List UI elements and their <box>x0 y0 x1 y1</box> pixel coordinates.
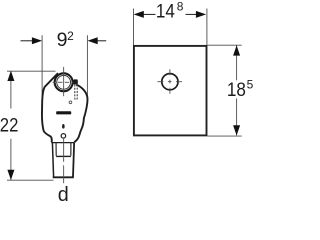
clip head <box>73 79 78 84</box>
svg-text:18: 18 <box>227 80 246 101</box>
trap centerline lower segment <box>63 165 65 183</box>
dimension 22 top extension line <box>7 70 56 72</box>
tube bottom edge <box>53 176 74 178</box>
svg-text:9: 9 <box>57 29 68 51</box>
dimension 22 bottom extension line <box>7 179 54 181</box>
tube right wall <box>73 143 74 177</box>
dimension 18-5 bottom extension line <box>208 135 242 137</box>
svg-text:22: 22 <box>0 116 18 137</box>
dimension 18-5 top extension line <box>208 44 242 46</box>
svg-text:14: 14 <box>156 1 175 22</box>
dimension 22 line lower segment <box>10 139 12 180</box>
clip pin hidden outline <box>75 85 77 100</box>
dimension 18-5 line upper segment <box>236 45 238 80</box>
droplet emblem <box>62 124 65 129</box>
trap centerline upper segment <box>63 139 65 162</box>
dimension 22 down arrow <box>7 170 14 180</box>
tube inner bore right line <box>70 143 72 156</box>
dimension 14-8 right arrow <box>196 11 206 18</box>
dimension 22 up arrow <box>7 71 14 81</box>
dimension 14-8 left extension line <box>133 9 135 46</box>
plate hole vertical centerline <box>169 69 171 95</box>
trap body left outline <box>42 73 58 142</box>
dimension 9-2 left tail wire <box>21 40 33 42</box>
inlet vertical centerline <box>63 67 65 96</box>
dimension 22 line upper segment <box>10 71 12 108</box>
dimension 14-8 left arrow <box>134 11 144 18</box>
dimension 9-2 right tail wire <box>97 40 106 42</box>
inlet horizontal centerline right dash <box>65 81 69 83</box>
tube inner bore bottom edge <box>56 155 71 157</box>
inlet circle outer ring <box>55 73 73 91</box>
svg-text:d: d <box>58 184 69 202</box>
plate hole horizontal centerline <box>157 81 183 83</box>
svg-text:5: 5 <box>247 78 254 92</box>
small drain circle <box>61 134 66 139</box>
trap body right outline <box>74 85 87 143</box>
dimension 14-8 right extension line <box>206 9 208 46</box>
dimension 9-2 left arrow <box>32 37 42 44</box>
tiny screw circle <box>69 101 72 104</box>
dimension 18-5 down arrow <box>233 125 240 135</box>
inlet ring left tick <box>53 81 56 83</box>
inlet horizontal centerline left dash <box>58 81 63 83</box>
inlet circle inner ring <box>57 75 71 89</box>
dimension 14-8 line right segment <box>186 13 197 15</box>
dimension 18-5 up arrow <box>233 45 240 55</box>
tube inner bore left line <box>55 143 57 156</box>
dimension 14-8 line left segment <box>143 13 156 15</box>
dimension 9-2 right extension line <box>86 35 88 97</box>
dimension 18-5 line lower segment <box>236 99 238 136</box>
dimension 9-2 left extension line <box>41 35 43 104</box>
plate hole circle <box>162 74 178 90</box>
tube left wall <box>52 143 53 177</box>
svg-text:8: 8 <box>177 0 184 13</box>
svg-text:2: 2 <box>67 29 74 43</box>
logo bar <box>56 111 71 114</box>
dimension 9-2 right arrow <box>88 37 98 44</box>
inlet ring right tick <box>72 81 74 83</box>
tube top edge <box>51 142 74 144</box>
cover plate rectangle <box>134 46 207 135</box>
